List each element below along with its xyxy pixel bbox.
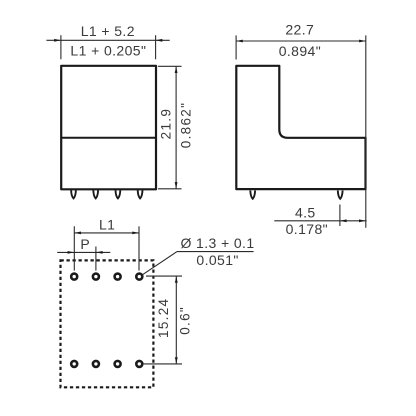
dimension 22.7 extension lines xyxy=(236,35,366,227)
dimension text 0.051in xyxy=(196,252,238,268)
dimension text L1+0.205in xyxy=(70,42,146,58)
dimension text 22.7 (mm) xyxy=(285,22,314,38)
dimension 15.24 line xyxy=(175,276,178,364)
dimension text 0.862in (rotated) xyxy=(179,102,194,148)
dimension text 4.5 (mm) xyxy=(295,204,316,220)
front view pin 1 xyxy=(71,190,76,198)
dimension P extension line xyxy=(95,247,97,271)
dimension 21.9 line xyxy=(175,66,178,189)
front view body xyxy=(61,66,156,190)
svg-text:15.24: 15.24 xyxy=(156,298,171,338)
dimension L1+5.2 line xyxy=(46,39,169,42)
svg-text:P: P xyxy=(80,236,90,252)
dimension P line xyxy=(57,251,110,254)
svg-text:0.6": 0.6" xyxy=(178,306,193,335)
dimension 15.24 extension lines xyxy=(143,276,182,364)
dimension 22.7 line xyxy=(236,40,366,43)
front view pin 4 xyxy=(138,190,143,198)
side view L-shaped body xyxy=(236,66,365,189)
front view pin 2 xyxy=(93,190,98,198)
hole row2 col3 xyxy=(115,361,121,367)
hole row1 col2 xyxy=(93,274,99,280)
dimension L1 extension lines xyxy=(74,226,139,270)
dimension text diameter 1.3+0.1 (mm) xyxy=(180,235,254,251)
side view pin left xyxy=(250,191,255,199)
hole row1 col4 xyxy=(136,274,142,280)
svg-text:0.051": 0.051" xyxy=(196,252,238,268)
hole diameter leader line xyxy=(143,252,254,275)
svg-text:L1 + 0.205": L1 + 0.205" xyxy=(70,42,146,58)
svg-text:4.5: 4.5 xyxy=(295,204,316,220)
hole row1 col1 xyxy=(71,274,77,280)
dimension L1+5.2 extension lines xyxy=(61,35,156,59)
dimension text P xyxy=(80,236,90,252)
hole row2 col1 xyxy=(71,361,77,367)
hole row1 col3 xyxy=(115,274,121,280)
svg-text:L1 + 5.2: L1 + 5.2 xyxy=(81,23,135,39)
dimension text 15.24 (mm, rotated) xyxy=(156,298,171,338)
dimension text 0.894in xyxy=(279,43,321,59)
dimension text L1+5.2 (mm) xyxy=(81,23,135,39)
svg-text:Ø 1.3 + 0.1: Ø 1.3 + 0.1 xyxy=(180,235,254,251)
svg-text:0.862": 0.862" xyxy=(179,102,194,148)
svg-text:22.7: 22.7 xyxy=(285,22,314,38)
dimension 4.5 extension line xyxy=(339,205,341,227)
hole row2 col2 xyxy=(93,361,99,367)
footprint dashed outline xyxy=(61,260,154,387)
front view pin 3 xyxy=(116,190,121,198)
dimension text L1 xyxy=(99,217,115,233)
dimension 21.9 extension lines xyxy=(158,66,182,189)
dimension text 0.178in xyxy=(286,221,328,237)
dimension L1 line xyxy=(74,232,139,235)
svg-text:0.178": 0.178" xyxy=(286,221,328,237)
side view pin right xyxy=(338,191,343,199)
dimension text 0.6in (rotated) xyxy=(178,306,193,335)
svg-text:21.9: 21.9 xyxy=(159,108,174,139)
front view divider line xyxy=(61,137,156,139)
hole row2 col4 xyxy=(136,361,142,367)
svg-text:L1: L1 xyxy=(99,217,115,233)
svg-text:0.894": 0.894" xyxy=(279,43,321,59)
dimension text 21.9 (mm, rotated) xyxy=(159,108,174,139)
dimension 4.5 line xyxy=(274,219,366,222)
